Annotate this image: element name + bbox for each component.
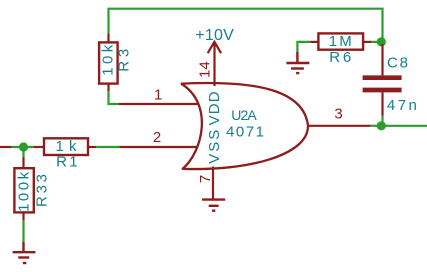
C8 top pin <box>381 44 383 75</box>
svg-text:U2A: U2A <box>231 107 257 123</box>
svg-text:R33: R33 <box>34 174 51 207</box>
resistor R33 <box>14 157 50 220</box>
wire top feedback loop <box>109 9 383 44</box>
wire R1 to gate input 2 <box>96 146 119 148</box>
svg-text:47n: 47n <box>387 97 417 114</box>
gate pin 1 line <box>119 103 200 105</box>
svg-text:C8: C8 <box>387 55 408 72</box>
pin 7 line (VSS supply pin) <box>212 167 214 200</box>
svg-text:14: 14 <box>196 61 213 78</box>
wire C8 to junction B <box>381 116 383 126</box>
svg-text:4071: 4071 <box>226 123 264 140</box>
resistor R3 <box>99 34 132 92</box>
wire ground to R6 <box>297 42 310 52</box>
svg-text:7: 7 <box>197 175 214 183</box>
wire R33 to ground <box>22 220 24 242</box>
wire left stub <box>0 146 12 148</box>
ground near R6 <box>286 52 309 73</box>
svg-text:1M: 1M <box>329 33 352 50</box>
resistor R6 <box>310 33 371 66</box>
R6 right pin <box>363 41 371 43</box>
OR gate U2A body (4071) <box>182 83 308 169</box>
C8 bottom plate <box>363 88 402 93</box>
power symbol +10V arrow <box>208 42 221 53</box>
wire R6 to junction C <box>371 41 381 43</box>
C8 top plate <box>363 75 402 80</box>
gate pin 2 line <box>119 146 205 148</box>
svg-text:R1: R1 <box>56 154 78 171</box>
R6 left pin <box>310 41 318 43</box>
R33 body <box>14 168 33 212</box>
R3 bottom pin <box>107 84 109 92</box>
C8 bottom pin <box>381 92 383 116</box>
svg-text:1: 1 <box>154 87 162 104</box>
R1 body <box>44 138 88 155</box>
wire to junction A <box>12 146 34 148</box>
svg-text:2: 2 <box>153 129 161 146</box>
R6 body <box>318 33 363 49</box>
junction B <box>377 121 386 130</box>
R1 left pin <box>33 146 44 148</box>
wire junction B to right edge <box>381 125 427 127</box>
resistor R1 <box>33 138 96 171</box>
junction C <box>377 37 386 46</box>
svg-text:VSS: VSS <box>206 130 223 164</box>
ground under pin 7 <box>202 200 225 211</box>
junction A <box>19 142 28 151</box>
R33 top pin <box>22 157 24 168</box>
svg-text:VDD: VDD <box>206 91 223 125</box>
R1 right pin <box>88 146 96 148</box>
svg-text:+10V: +10V <box>195 27 234 44</box>
R3 body <box>99 42 118 83</box>
svg-text:R6: R6 <box>329 49 351 66</box>
wire R3 to gate input 1 <box>109 91 120 104</box>
svg-text:3: 3 <box>334 106 342 123</box>
ground under R33 <box>13 242 36 263</box>
wire pin3 to junction B <box>371 125 382 127</box>
R3 top pin <box>107 34 109 43</box>
svg-text:10k: 10k <box>100 44 117 75</box>
wire junction A to R33 <box>22 147 24 157</box>
gate pin 3 output line <box>308 125 371 127</box>
pin 14 line (VDD supply pin) <box>213 42 215 86</box>
R33 bottom pin <box>22 212 24 220</box>
capacitor C8 <box>363 44 417 126</box>
